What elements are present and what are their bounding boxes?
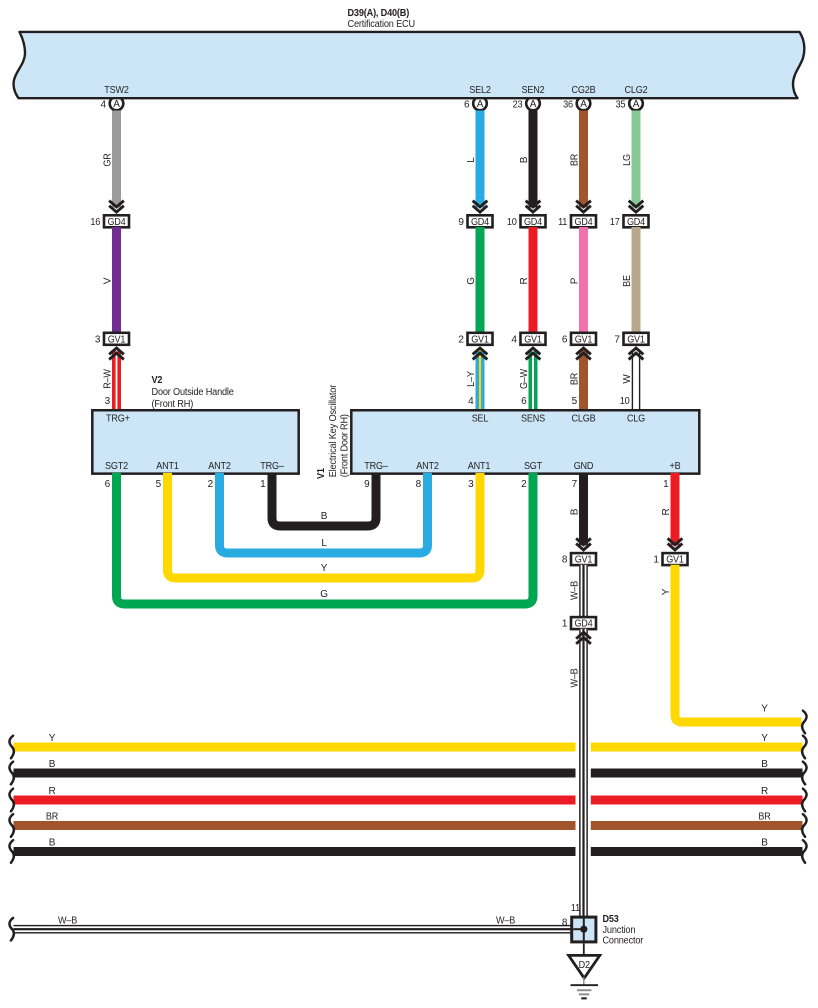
bus wire R at y=800 (14, 786, 803, 804)
label D53 Junction Connector (603, 914, 644, 946)
wire G-W from GV1 to V1 SENS (519, 350, 538, 409)
wire G V2 SGT2 to V1 SGT (117, 473, 534, 604)
wire W-B horizontal from left edge to D53 (14, 915, 573, 933)
svg-text:ANT2: ANT2 (208, 461, 231, 472)
svg-text:1: 1 (260, 479, 266, 490)
wire L-Y from GV1 to V1 SEL (466, 350, 485, 409)
junction dot D53 (580, 926, 587, 933)
svg-text:ANT2: ANT2 (416, 461, 439, 472)
V2 bottom pin names (105, 461, 284, 472)
svg-text:GV1: GV1 (108, 334, 126, 345)
arrow into GV1 (R-W) (109, 348, 124, 360)
wire B from SEN2 to GD4 (519, 111, 538, 208)
svg-text:SGT: SGT (524, 461, 542, 472)
wire BR from CG2B to GD4 (570, 111, 589, 208)
svg-text:GV1: GV1 (666, 555, 684, 566)
svg-text:R: R (48, 786, 55, 797)
svg-text:W: W (622, 374, 633, 384)
svg-text:W–B: W–B (570, 580, 581, 600)
connector GD4 pin 11 (558, 215, 596, 228)
label V1 Electrical Key Oscillator (Front Door RH) (316, 384, 351, 479)
node SEN2 pin label (522, 85, 546, 96)
arrow into GV1 pin 8 (576, 538, 591, 550)
svg-text:(Front RH): (Front RH) (152, 399, 194, 410)
svg-text:R: R (519, 277, 530, 284)
connector GV1 pin 7 (614, 333, 648, 346)
wire R from V1 +B to GV1 pin 1 (661, 473, 680, 545)
svg-text:G–W: G–W (519, 368, 530, 389)
svg-text:6: 6 (521, 396, 527, 407)
pin 8 label at D53 (562, 917, 568, 928)
V2 pin name TRG+ (106, 414, 130, 425)
connector GD4 pin 17 (610, 215, 649, 228)
pin 4 label A letter and number at TSW2 (101, 99, 121, 110)
svg-text:36: 36 (563, 100, 573, 111)
bus wire B at y=851.5 (14, 838, 803, 856)
svg-text:B: B (761, 838, 768, 849)
svg-text:GV1: GV1 (575, 334, 593, 345)
svg-text:ANT1: ANT1 (156, 461, 179, 472)
pin 3 label at V2 TRG+ (105, 396, 111, 407)
tear marks bus B (9, 762, 806, 785)
svg-text:B: B (321, 511, 328, 522)
connector GV1 pin 4 (511, 333, 545, 346)
pin 23 label A letter and number at SEN2 (513, 99, 537, 110)
pin 4 label at V1 SEL (468, 396, 474, 407)
svg-text:Connector: Connector (603, 936, 644, 947)
pin 11 label at D53 (571, 903, 581, 914)
svg-text:SGT2: SGT2 (105, 461, 129, 472)
svg-text:8: 8 (562, 555, 568, 566)
pin 10 label at V1 CLG (620, 396, 630, 407)
svg-text:GD4: GD4 (574, 217, 593, 228)
wire Y from GV1 pin 1 to right edge (661, 565, 802, 722)
svg-text:CG2B: CG2B (572, 85, 596, 96)
pin 6 connector A circle at SEL2 (473, 97, 487, 111)
ECU D39(A)/D40(B) Certification ECU body (14, 32, 805, 98)
svg-text:TRG–: TRG– (260, 461, 284, 472)
svg-text:3: 3 (95, 334, 101, 345)
svg-text:7: 7 (572, 479, 578, 490)
svg-text:GD4: GD4 (107, 217, 126, 228)
arrow out of GD4 pin 1 (576, 632, 591, 644)
wire B from V1 GND to GV1 pin 8 (570, 473, 589, 545)
V1 bottom pin numbers (364, 479, 669, 490)
node CG2B pin label (572, 85, 596, 96)
svg-text:1: 1 (663, 479, 669, 490)
wire from D53 to shield D2 (583, 943, 585, 955)
svg-text:GV1: GV1 (524, 334, 542, 345)
svg-text:23: 23 (513, 100, 523, 111)
svg-text:GD4: GD4 (524, 217, 543, 228)
svg-text:TRG+: TRG+ (106, 414, 130, 425)
svg-text:1: 1 (562, 619, 568, 630)
V1 Electrical Key Oscillator box (351, 410, 699, 473)
svg-text:9: 9 (458, 217, 464, 228)
svg-text:10: 10 (507, 217, 517, 228)
svg-text:R: R (761, 786, 768, 797)
svg-text:A: A (633, 99, 640, 110)
wire W from GV1 to V1 CLG (622, 350, 640, 409)
svg-text:6: 6 (464, 100, 470, 111)
svg-text:W–B: W–B (496, 915, 516, 926)
arrow into GD4 (SEL2 column) (473, 201, 488, 213)
svg-text:A: A (580, 99, 587, 110)
wire W-B long from GD4 pin 1 to junction connector D53 (570, 629, 588, 918)
V1 bottom pin names (364, 461, 681, 472)
connector GD4 pin 1 (562, 617, 596, 630)
svg-text:GND: GND (574, 461, 594, 472)
svg-text:8: 8 (562, 917, 568, 928)
pin 36 connector A circle at CG2B (577, 97, 591, 111)
svg-text:SEN2: SEN2 (522, 85, 546, 96)
node TSW2 pin label (104, 85, 129, 96)
svg-text:R: R (661, 508, 672, 515)
svg-text:2: 2 (458, 334, 464, 345)
svg-text:B: B (570, 508, 581, 515)
bus wire BR at y=825.5 (14, 812, 803, 830)
svg-text:CLG2: CLG2 (625, 85, 649, 96)
svg-text:5: 5 (156, 479, 162, 490)
svg-text:B: B (49, 759, 56, 770)
pin 4 connector A circle at TSW2 (110, 97, 124, 111)
wire BE from GD4 to GV1 (622, 227, 641, 334)
connector GV1 pin 2 (458, 333, 492, 346)
svg-text:V: V (103, 277, 114, 284)
node SEL2 pin label (469, 85, 491, 96)
svg-text:CLG: CLG (627, 414, 645, 425)
svg-text:BR: BR (758, 812, 770, 823)
svg-text:V2: V2 (152, 375, 163, 386)
bus wire B at y=773 (14, 759, 803, 777)
label Certification ECU title (348, 8, 416, 30)
V2 Door Outside Handle box (92, 410, 298, 473)
svg-text:A: A (530, 99, 537, 110)
pin 5 label at V1 CLGB (572, 396, 578, 407)
svg-text:17: 17 (610, 217, 620, 228)
svg-text:6: 6 (562, 334, 568, 345)
svg-text:GD4: GD4 (627, 217, 646, 228)
svg-text:10: 10 (620, 396, 630, 407)
wire G from GD4 to GV1 (466, 227, 485, 334)
arrow into GV1 (L-Y) (473, 348, 488, 360)
svg-text:CLGB: CLGB (572, 414, 596, 425)
svg-text:SENS: SENS (521, 414, 545, 425)
svg-text:Certification ECU: Certification ECU (348, 19, 416, 30)
svg-text:BE: BE (622, 275, 633, 287)
svg-text:Y: Y (761, 733, 768, 744)
tear marks bus Y (9, 736, 806, 759)
svg-text:BR: BR (570, 373, 581, 385)
svg-text:2: 2 (521, 479, 527, 490)
svg-text:3: 3 (105, 396, 111, 407)
svg-text:11: 11 (571, 903, 581, 914)
svg-text:Electrical Key Oscillator: Electrical Key Oscillator (328, 384, 339, 477)
wire Y V2 ANT1 to V1 ANT1 (168, 473, 481, 578)
wire BR from GV1 to V1 CLGB (570, 350, 589, 409)
tear marks bus B (9, 840, 806, 863)
svg-text:35: 35 (616, 100, 626, 111)
svg-text:GD4: GD4 (471, 217, 490, 228)
svg-text:GR: GR (103, 153, 114, 166)
svg-text:SEL2: SEL2 (469, 85, 491, 96)
svg-text:4: 4 (101, 100, 107, 111)
svg-text:A: A (477, 99, 484, 110)
svg-text:3: 3 (468, 479, 474, 490)
pin 6 label at V1 SENS (521, 396, 527, 407)
wire L from SEL2 to GD4 (466, 111, 485, 208)
svg-text:7: 7 (614, 334, 620, 345)
tear marks bus R (9, 789, 806, 812)
svg-text:TSW2: TSW2 (104, 85, 129, 96)
arrow into GD4 (SEN2 column) (526, 201, 541, 213)
svg-text:D2: D2 (579, 960, 591, 971)
pin 23 connector A circle at SEN2 (526, 97, 540, 111)
svg-text:ANT1: ANT1 (468, 461, 491, 472)
shield symbol D2 triangle (569, 955, 600, 978)
arrow into GV1 (BR) (576, 348, 591, 360)
svg-text:TRG–: TRG– (364, 461, 388, 472)
svg-text:A: A (113, 99, 120, 110)
svg-text:L–Y: L–Y (466, 371, 477, 387)
svg-text:GD4: GD4 (574, 619, 593, 630)
tear mark Y branch right (802, 711, 806, 734)
svg-text:+B: +B (670, 461, 681, 472)
connector GD4 pin 16 (90, 215, 129, 228)
svg-text:2: 2 (208, 479, 214, 490)
arrow into GV1 (G-W) (526, 348, 541, 360)
node CLG2 pin label (625, 85, 649, 96)
svg-text:BR: BR (46, 812, 58, 823)
svg-text:R–W: R–W (103, 369, 114, 389)
svg-text:P: P (570, 277, 581, 284)
svg-text:16: 16 (90, 217, 100, 228)
svg-text:B: B (49, 838, 56, 849)
wires inside D53 junction (573, 919, 585, 941)
svg-text:B: B (761, 759, 768, 770)
junction connector D53 box (572, 917, 596, 942)
tear mark W-B left (9, 918, 13, 941)
connector GV1 pin 1 (653, 553, 687, 566)
svg-text:6: 6 (105, 479, 111, 490)
wire W-B vertical crossing buses to D53 (579, 644, 588, 918)
svg-text:Y: Y (49, 733, 56, 744)
label V2 Door Outside Handle (Front RH) (152, 375, 235, 410)
wire LG from CLG2 to GD4 (622, 111, 641, 208)
svg-text:L: L (466, 157, 477, 163)
wire L V2 ANT2 to V1 ANT2 (220, 473, 428, 553)
svg-text:W–B: W–B (58, 915, 78, 926)
svg-text:GV1: GV1 (471, 334, 489, 345)
arrow into GD4 (CLG2 column) (629, 201, 644, 213)
pin 35 label A letter and number at CLG2 (616, 99, 640, 110)
wire GR from TSW2 to GD4 (103, 111, 122, 208)
connector GV1 pin 8 (562, 553, 596, 566)
svg-text:W–B: W–B (570, 668, 581, 688)
svg-text:BR: BR (570, 154, 581, 166)
svg-text:Junction: Junction (603, 925, 636, 936)
svg-text:(Front Door RH): (Front Door RH) (340, 414, 351, 477)
connector GD4 pin 9 (458, 215, 492, 228)
svg-text:B: B (519, 156, 530, 163)
V1 top pin names (472, 414, 646, 425)
svg-text:GV1: GV1 (575, 555, 593, 566)
arrow into GD4 (CG2B column) (576, 201, 591, 213)
wire R-W from GV1 to V2 TRG+ (103, 350, 122, 409)
svg-text:LG: LG (622, 154, 633, 166)
ground symbol (571, 977, 599, 999)
connector GD4 pin 10 (507, 215, 546, 228)
connector GV1 pin 3 (95, 333, 129, 346)
svg-text:L: L (321, 538, 327, 549)
pin 35 connector A circle at CLG2 (629, 97, 643, 111)
tear marks bus BR (9, 814, 806, 837)
svg-text:4: 4 (511, 334, 517, 345)
svg-text:D39(A), D40(B): D39(A), D40(B) (348, 8, 410, 19)
svg-text:D53: D53 (603, 914, 620, 925)
arrow into GV1 pin 1 (668, 538, 683, 550)
svg-text:SEL: SEL (472, 414, 489, 425)
svg-text:V1: V1 (316, 468, 327, 479)
svg-text:11: 11 (558, 217, 568, 228)
svg-text:G: G (320, 589, 328, 600)
svg-text:5: 5 (572, 396, 578, 407)
svg-text:Door Outside Handle: Door Outside Handle (152, 387, 235, 398)
svg-text:Y: Y (321, 563, 328, 574)
svg-text:1: 1 (653, 555, 659, 566)
arrow into GV1 (W) (629, 348, 644, 360)
wire B V2 TRG- to V1 TRG- (272, 473, 376, 526)
connector GV1 pin 6 (562, 333, 596, 346)
bus wire Y at y=747 (14, 733, 803, 751)
pin 6 label A letter and number at SEL2 (464, 99, 484, 110)
wire V from GD4 to GV1 (103, 227, 122, 334)
wire R from GD4 to GV1 (519, 227, 538, 334)
svg-text:4: 4 (468, 396, 474, 407)
V2 bottom pin numbers (105, 479, 267, 490)
svg-text:9: 9 (364, 479, 370, 490)
arrow into GD4 (TSW2 column) (109, 201, 124, 213)
wire P from GD4 to GV1 (570, 227, 589, 334)
svg-text:G: G (466, 277, 477, 285)
svg-text:Y: Y (661, 588, 672, 595)
svg-text:Y: Y (761, 704, 768, 715)
wire W-B from GV1 pin 8 to GD4 pin 1 (570, 565, 588, 618)
svg-text:8: 8 (416, 479, 422, 490)
pin 36 label A letter and number at CG2B (563, 99, 587, 110)
svg-text:GV1: GV1 (627, 334, 645, 345)
